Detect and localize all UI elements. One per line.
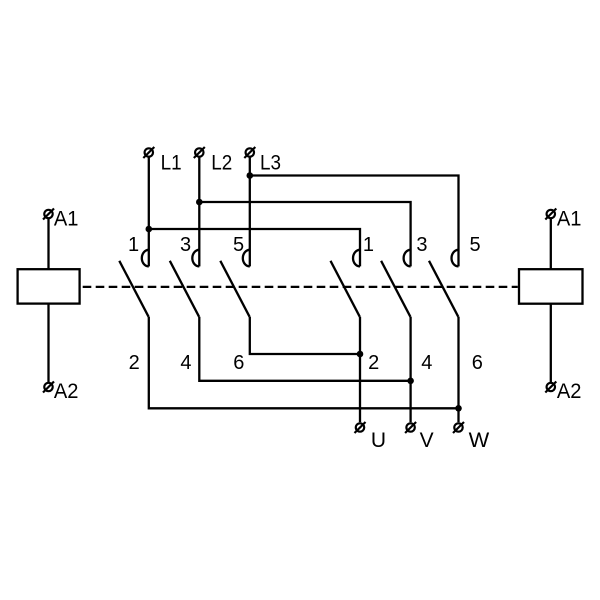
terminal L3 xyxy=(244,147,255,158)
wire A1 to K1 coil xyxy=(47,219,49,269)
svg-text:1: 1 xyxy=(363,234,374,256)
wire L3 to contact 5 (K2) xyxy=(250,176,459,267)
contactor coil K1 (left) xyxy=(18,269,80,303)
junction node U xyxy=(357,351,364,358)
junction node V xyxy=(407,378,414,385)
junction node W xyxy=(455,405,462,412)
svg-text:5: 5 xyxy=(233,234,244,256)
svg-text:6: 6 xyxy=(472,352,483,374)
svg-text:1: 1 xyxy=(128,234,139,256)
wire contact 2 (K1) to W net xyxy=(149,317,459,409)
fixed contact 1 (K2) xyxy=(353,250,360,267)
wire contact 4 (K2) down to V xyxy=(409,317,411,422)
wire L1 down to contact 1 (K1) xyxy=(148,158,150,267)
wire contact 2 (K2) down to U xyxy=(359,317,361,422)
junction L2 tap xyxy=(196,199,203,206)
terminal L2 xyxy=(194,147,205,158)
terminal A1 (K2) xyxy=(545,209,556,220)
svg-text:L1: L1 xyxy=(161,151,182,174)
fixed contact 1 (K1) xyxy=(142,250,149,267)
svg-text:A2: A2 xyxy=(54,380,79,403)
svg-text:A1: A1 xyxy=(557,207,582,230)
svg-text:6: 6 xyxy=(233,352,244,374)
fixed contact 3 (K1) xyxy=(192,250,199,267)
svg-text:5: 5 xyxy=(470,234,481,256)
terminal A1 (K1) xyxy=(43,209,54,220)
terminal L1 xyxy=(143,147,154,158)
terminal A2 (K1) xyxy=(43,382,54,393)
wire contact 6 (K2) down to W xyxy=(457,317,459,422)
junction L3 tap xyxy=(247,172,254,179)
contactor coil K2 (right) xyxy=(519,269,583,304)
svg-text:A1: A1 xyxy=(54,207,79,230)
svg-text:U: U xyxy=(371,429,386,452)
wire A1 to K2 coil xyxy=(550,219,552,269)
fixed contact 5 (K1) xyxy=(243,250,250,267)
svg-text:2: 2 xyxy=(368,352,379,374)
moving contact 3 (K2) xyxy=(381,261,410,317)
terminal A2 (K2) xyxy=(545,382,556,393)
svg-text:3: 3 xyxy=(416,234,427,256)
wire K1 coil to A2 xyxy=(47,304,49,382)
moving contact 5 (K1) xyxy=(220,261,249,317)
fixed contact 5 (K2) xyxy=(452,250,459,267)
svg-text:3: 3 xyxy=(180,234,191,256)
wire L2 to contact 3 (K2) xyxy=(199,202,410,266)
moving contact 3 (K1) xyxy=(170,261,199,317)
wire contact 4 (K1) to V net xyxy=(199,317,410,381)
svg-text:A2: A2 xyxy=(557,380,582,403)
svg-text:4: 4 xyxy=(180,352,191,374)
wire contact 6 (K1) to U net xyxy=(250,317,360,354)
fixed contact 3 (K2) xyxy=(404,250,411,267)
terminal V xyxy=(405,422,416,433)
svg-text:W: W xyxy=(469,429,490,452)
moving contact 5 (K2) xyxy=(429,261,458,317)
svg-text:2: 2 xyxy=(129,352,140,374)
moving contact 1 (K2) xyxy=(331,261,360,317)
svg-text:V: V xyxy=(420,429,434,452)
svg-text:4: 4 xyxy=(421,352,432,374)
svg-text:L3: L3 xyxy=(260,151,281,174)
wire L3 down to contact 5 (K1) xyxy=(249,158,251,267)
moving contact 1 (K1) xyxy=(119,261,148,317)
wire L1 to contact 1 (K2) xyxy=(149,229,360,266)
junction L1 tap xyxy=(146,226,153,233)
terminal W xyxy=(453,422,464,433)
wire L2 down to contact 3 (K1) xyxy=(198,158,200,267)
wire K2 coil to A2 xyxy=(550,304,552,382)
mechanical linkage (dashed) xyxy=(83,286,518,288)
terminal U xyxy=(355,422,366,433)
svg-text:L2: L2 xyxy=(211,151,232,174)
